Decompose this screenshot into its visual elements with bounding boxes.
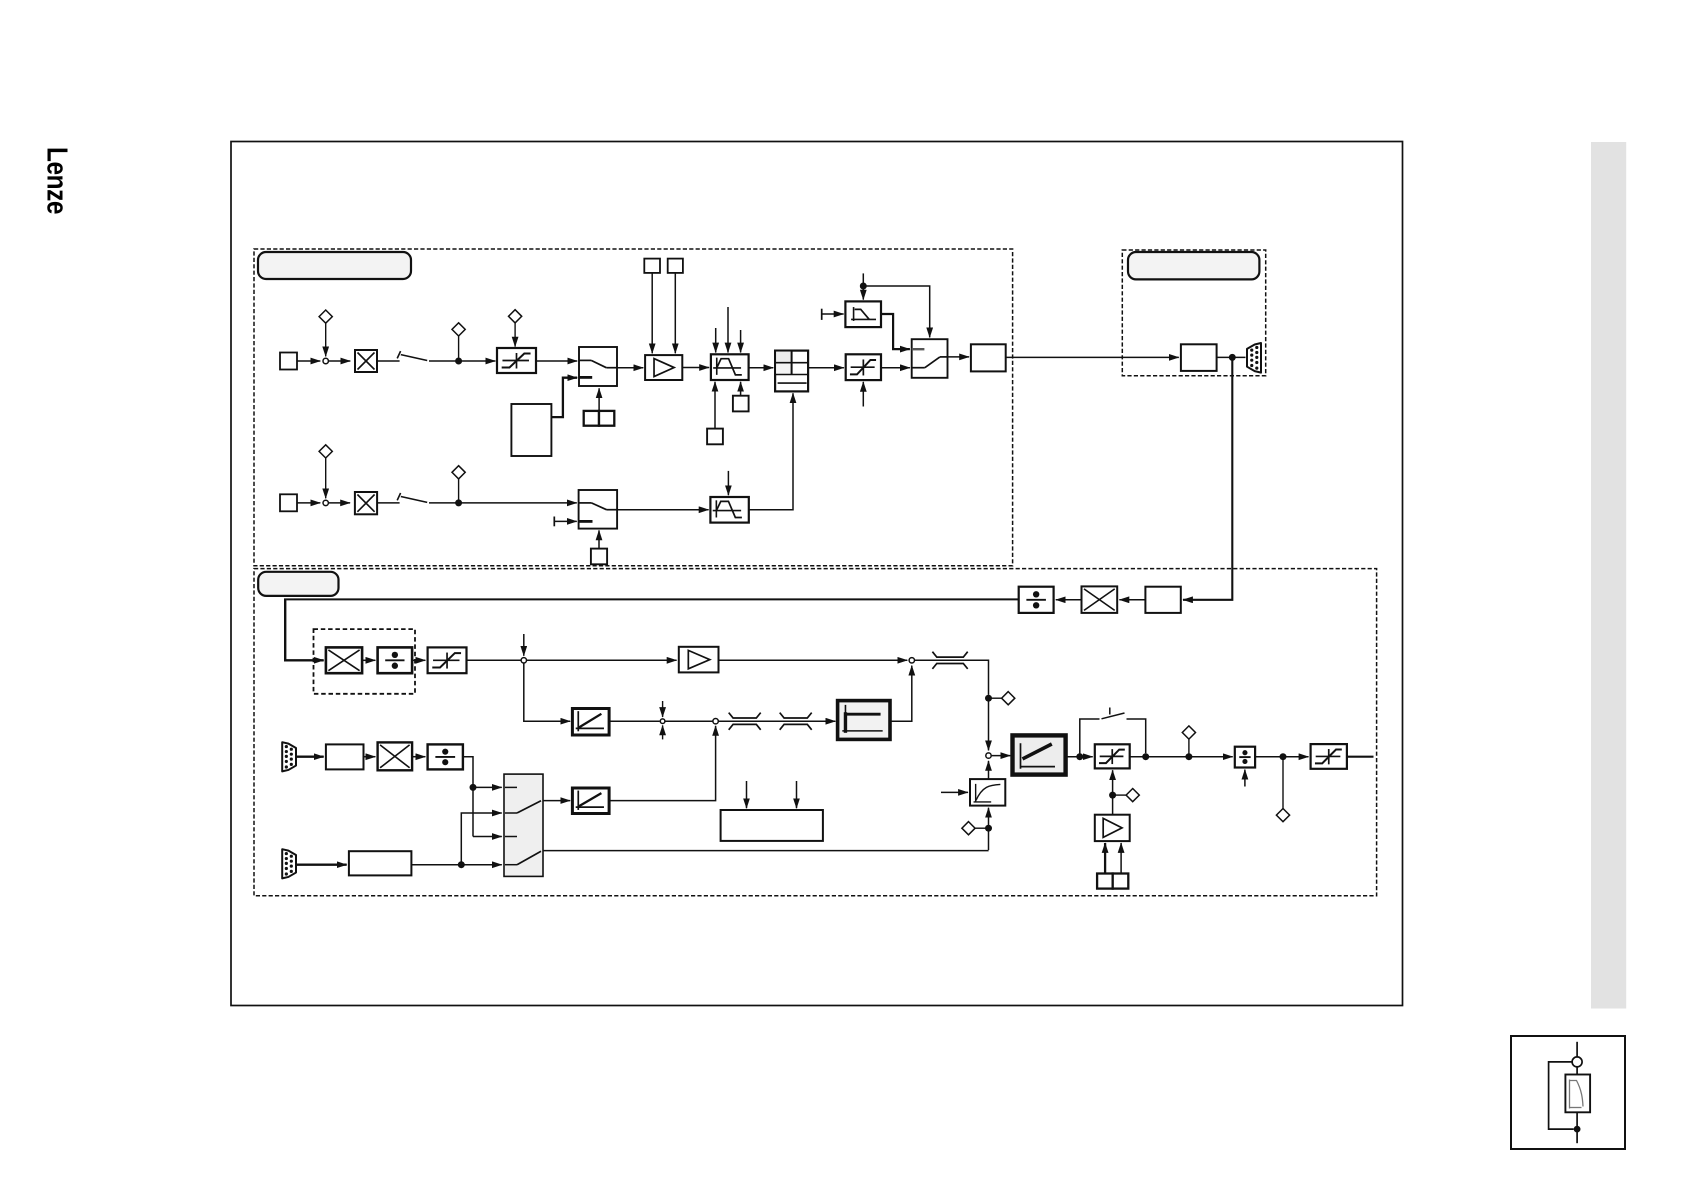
- wire (bold elbow): [881, 314, 910, 349]
- junction: [1142, 753, 1149, 760]
- wire: [467, 659, 521, 661]
- switch 2 output stub: [940, 356, 948, 358]
- switch 1 lower stub: [579, 376, 592, 379]
- code square b: [668, 259, 683, 273]
- switch contact tick: [397, 351, 400, 358]
- multiplier E: [378, 742, 413, 770]
- limit rails 3: [932, 652, 967, 669]
- double square under switch 1: [584, 411, 615, 426]
- wire: [740, 330, 742, 353]
- switch 3 output stub: [607, 509, 618, 511]
- divider block small: [1235, 747, 1255, 768]
- sum node S2: [909, 658, 914, 663]
- wire: [473, 786, 502, 788]
- wire: [377, 360, 400, 362]
- wire: [297, 502, 320, 504]
- wire: [1130, 756, 1233, 758]
- switch 2 blade: [925, 357, 940, 368]
- wire: [1066, 756, 1093, 758]
- wire: [297, 756, 324, 758]
- legend wire: [1576, 1112, 1578, 1143]
- switch 2 input stub: [912, 367, 925, 369]
- limiter B: [846, 354, 881, 380]
- wire: [598, 530, 600, 548]
- wire (bold L): [551, 378, 577, 417]
- switch 1 blade: [591, 360, 606, 367]
- start tick: [821, 309, 823, 320]
- legend feedback wire: [1549, 1062, 1574, 1129]
- parameter diamond 3: [509, 310, 522, 323]
- legend wire: [1576, 1067, 1578, 1075]
- switch 3 lower stub: [579, 520, 593, 523]
- wire (down from S1): [524, 663, 570, 721]
- sum node 2: [323, 500, 328, 505]
- wire (output): [1347, 756, 1374, 758]
- monitor diamond D: [1276, 809, 1289, 822]
- label plate controller: [258, 572, 338, 596]
- wire: [727, 471, 729, 495]
- wire: [377, 502, 400, 504]
- wire: [1104, 843, 1106, 874]
- wire (stub into S1): [523, 634, 525, 656]
- square under switch 3: [591, 549, 607, 565]
- square under ramp 2: [707, 429, 723, 445]
- wire: [740, 382, 742, 396]
- wire: [458, 336, 460, 358]
- changeover switch 2: [912, 339, 948, 378]
- wire: [651, 273, 653, 353]
- wire: [682, 367, 709, 369]
- wire: [1282, 760, 1284, 809]
- junction: [1185, 753, 1192, 760]
- input square 2: [280, 494, 297, 511]
- wire: [609, 720, 660, 722]
- wire: [527, 659, 677, 661]
- divider E: [428, 744, 463, 769]
- wire: [715, 328, 717, 353]
- junction: [860, 283, 867, 290]
- wire (stub up): [1244, 770, 1246, 787]
- wire: [989, 697, 1002, 699]
- wire: [881, 367, 910, 369]
- PT1 filter (decay): [845, 301, 881, 327]
- limit rails 2: [780, 713, 812, 730]
- ramp generator 1: [711, 354, 749, 380]
- legend box: [1511, 1036, 1625, 1149]
- wire: [554, 520, 577, 522]
- wire: [362, 659, 375, 661]
- monitor diamond E: [1126, 789, 1139, 802]
- junction: [455, 358, 462, 365]
- switch 3 input stub: [579, 502, 592, 504]
- parameter diamond 2: [452, 323, 465, 336]
- wire: [325, 323, 327, 356]
- wire: [727, 307, 729, 353]
- wire (from below): [988, 808, 990, 850]
- wire: [948, 356, 970, 358]
- start tick: [553, 517, 555, 527]
- junction: [1229, 354, 1236, 361]
- legend junction: [1574, 1126, 1581, 1133]
- wire: [1188, 739, 1190, 754]
- square under ramp 1: [733, 396, 749, 412]
- wire: [714, 382, 716, 429]
- wire: [297, 360, 320, 362]
- wire: [473, 836, 502, 838]
- multiplier 2: [355, 492, 377, 514]
- register C: [1145, 587, 1180, 613]
- label plate setpoint: [258, 252, 411, 279]
- wire: [1112, 798, 1114, 814]
- normalize box (dashed): [314, 629, 416, 694]
- changeover switch 3: [579, 490, 618, 529]
- wire (corner down): [915, 660, 989, 695]
- wire: [1217, 356, 1246, 358]
- switch 3 blade: [591, 503, 606, 510]
- PT1 block (rise): [970, 779, 1005, 806]
- double square under gain 3: [1097, 874, 1128, 889]
- wire: [808, 367, 844, 369]
- label plate output: [1128, 252, 1259, 279]
- junction: [1280, 753, 1287, 760]
- bypass wire 2: [1127, 719, 1146, 753]
- legend node: [1572, 1057, 1582, 1067]
- wire: [543, 800, 570, 802]
- wire: [975, 827, 988, 829]
- limit rails 1: [729, 713, 761, 730]
- wire: [749, 367, 774, 369]
- wire: [329, 360, 351, 362]
- limiter E: [428, 647, 467, 673]
- wire: [617, 509, 709, 511]
- parameter diamond 1: [319, 310, 332, 323]
- junction: [455, 499, 462, 506]
- gain block 1: [645, 355, 682, 380]
- switch contact tick: [397, 493, 400, 500]
- wire: [988, 702, 990, 751]
- bypass tick: [1109, 708, 1111, 715]
- wire: [1056, 599, 1082, 601]
- junction: [1109, 792, 1116, 799]
- mux stub 3: [505, 836, 517, 838]
- limiter C2: [1095, 744, 1130, 768]
- bypass blade: [1102, 713, 1125, 719]
- legend wire top: [1576, 1042, 1578, 1057]
- DB9 connector resolver: [282, 742, 296, 771]
- parameter diamond 5: [452, 466, 465, 479]
- sum node 1: [323, 358, 328, 363]
- trim node: [660, 719, 665, 724]
- wire: [429, 360, 495, 362]
- wire (up elbow): [461, 813, 502, 865]
- mux stub 2: [505, 812, 517, 814]
- divider C: [1019, 587, 1054, 613]
- wire: [988, 761, 990, 779]
- wire (long left): [286, 598, 1019, 600]
- DB9 connector encoder: [282, 849, 296, 878]
- svg-text:Lenze: Lenze: [41, 147, 73, 214]
- wire: [992, 755, 1011, 757]
- junction: [470, 784, 477, 791]
- speed controller PI block: [1013, 735, 1066, 774]
- wire: [719, 659, 908, 661]
- input square 1: [280, 353, 297, 370]
- changeover switch 1: [579, 347, 617, 386]
- parameter diamond 4: [319, 445, 332, 458]
- wire: [941, 791, 968, 793]
- output rectangle: [971, 344, 1006, 371]
- controller box (dashed): [254, 569, 1377, 896]
- wire (up to divider): [749, 393, 793, 510]
- monitor diamond C: [1182, 726, 1195, 739]
- junction: [458, 861, 465, 868]
- mux stub 4: [505, 864, 517, 866]
- wire: [364, 756, 376, 758]
- switch 1 input stub: [579, 359, 591, 361]
- wire: [458, 479, 460, 500]
- wire (down to divide chain): [1183, 357, 1232, 599]
- legend PT1 block: [1565, 1075, 1590, 1113]
- wire: [862, 382, 864, 407]
- outer frame: [231, 142, 1403, 1006]
- switch 1 output stub: [606, 367, 617, 369]
- mux blade lower: [517, 851, 541, 864]
- mux stub 1: [505, 786, 517, 788]
- gray sidebar: [1591, 142, 1626, 1009]
- wire: [297, 864, 347, 866]
- wire: [325, 458, 327, 498]
- wire: [617, 367, 643, 369]
- wire: [862, 273, 864, 299]
- wire: [411, 864, 501, 866]
- switch 2 upper stub: [912, 348, 925, 350]
- monitor diamond A: [1002, 692, 1015, 705]
- sum node S1: [521, 658, 526, 663]
- switch blade: [401, 497, 427, 503]
- DB9 connector out: [1247, 343, 1261, 373]
- register B: [349, 851, 412, 875]
- wire: [412, 756, 425, 758]
- wire: [1006, 356, 1179, 358]
- wire: [796, 781, 798, 808]
- wire: [1120, 843, 1122, 874]
- output box (dashed): [1122, 250, 1265, 376]
- divider grid block: [775, 351, 808, 392]
- wire: [863, 286, 929, 337]
- ramp generator 2: [710, 497, 748, 523]
- limiter F: [1311, 744, 1347, 769]
- code square a: [644, 259, 660, 273]
- wire: [665, 720, 712, 722]
- wire: [412, 659, 425, 661]
- divider D: [378, 647, 413, 673]
- register A: [326, 744, 364, 769]
- ramp table rectangle: [721, 810, 823, 841]
- gain block 3: [1095, 815, 1130, 841]
- gain block 2: [679, 647, 719, 673]
- wire: [1255, 756, 1308, 758]
- monitor diamond B: [962, 822, 975, 835]
- multiplier C: [1082, 586, 1118, 613]
- output register: [1181, 344, 1217, 371]
- wire: [598, 388, 600, 411]
- torque limit block: [838, 701, 890, 740]
- characteristic block 2: [572, 788, 609, 814]
- wire: [429, 502, 577, 504]
- bypass wire: [1080, 719, 1100, 757]
- wire: [718, 720, 835, 722]
- junction: [985, 825, 992, 832]
- setpoint box (dashed): [254, 249, 1013, 566]
- wire (corner down): [463, 757, 473, 837]
- multiplier 1: [355, 350, 377, 372]
- junction: [985, 695, 992, 702]
- limiter A: [497, 348, 536, 373]
- wire: [514, 323, 516, 347]
- wire: [329, 502, 350, 504]
- wire (up into S2): [890, 666, 912, 722]
- wire: [1112, 770, 1114, 795]
- selector mux: [504, 774, 543, 876]
- sum node S3: [713, 719, 718, 724]
- switch blade: [401, 355, 427, 361]
- wire: [536, 360, 577, 362]
- mux blade upper: [517, 801, 541, 813]
- junction: [1076, 753, 1083, 760]
- wire: [1119, 599, 1145, 601]
- wire: [822, 313, 844, 315]
- multiplier D: [326, 647, 362, 673]
- wire: [662, 725, 664, 739]
- wire (long bottom): [543, 850, 989, 852]
- characteristic block 1: [572, 709, 609, 736]
- wire: [746, 781, 748, 808]
- wire: [674, 273, 676, 353]
- function rectangle: [511, 404, 551, 456]
- wire: [662, 701, 664, 717]
- wire (elbow down): [285, 598, 324, 660]
- wire (char2 to S3): [609, 726, 716, 801]
- sum node S4: [986, 753, 991, 758]
- wire: [1116, 794, 1126, 796]
